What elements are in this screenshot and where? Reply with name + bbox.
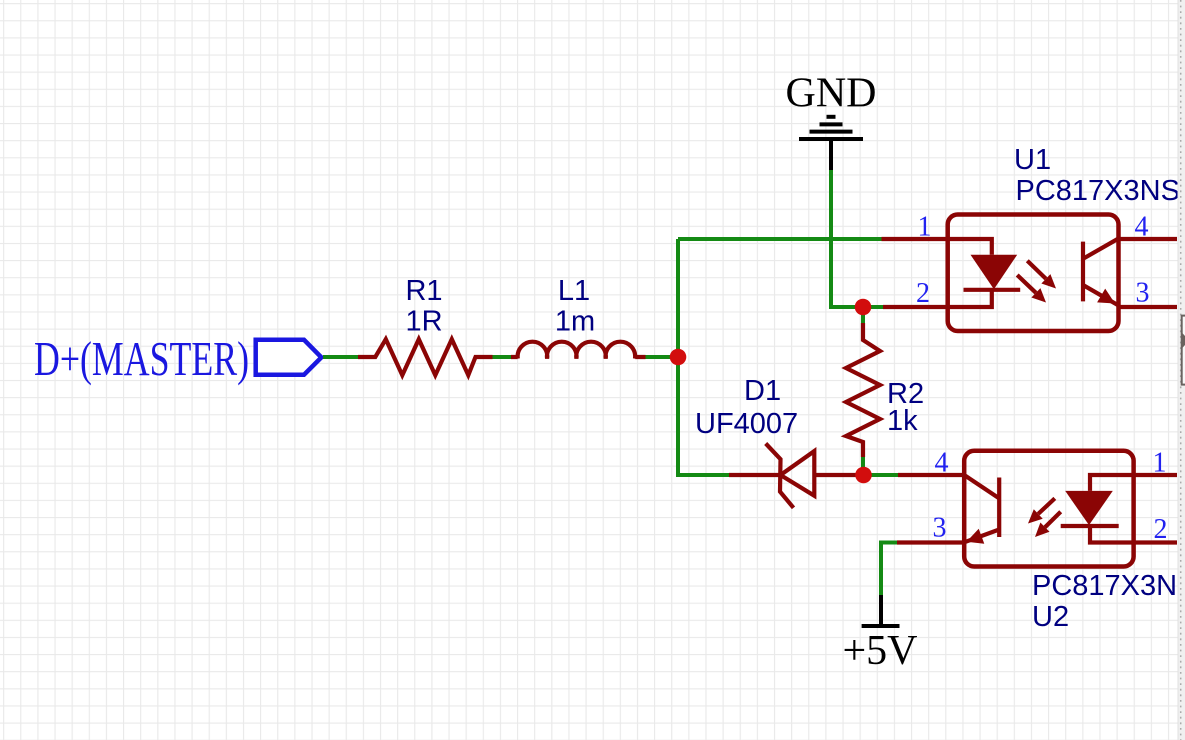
svg-text:D1: D1 [744, 375, 781, 407]
wire R1 to L1 [493, 355, 513, 359]
U2 pin 1 stub [1134, 473, 1177, 477]
vertical wire main node [678, 239, 680, 475]
wire to U1 pin 1 [678, 237, 882, 241]
wire L1 to junction [646, 355, 679, 359]
svg-text:3: 3 [933, 513, 947, 544]
U1 light arrows [1017, 261, 1056, 303]
svg-text:U1: U1 [1014, 144, 1051, 176]
diode D1 [729, 444, 864, 508]
wire +5V to U2 pin 3 [881, 543, 897, 596]
svg-text:GND: GND [786, 71, 877, 117]
U2 pin 3 stub [897, 540, 964, 544]
svg-text:2: 2 [916, 278, 930, 309]
U1 pin 2 stub [883, 305, 948, 309]
U2 light arrows [1028, 498, 1061, 537]
U2 pin 2 stub [1134, 540, 1177, 544]
svg-text:2: 2 [1154, 514, 1168, 545]
inductor L1 [511, 342, 646, 359]
wire corner to D1 [678, 473, 729, 477]
svg-text:UF4007: UF4007 [695, 408, 798, 440]
resistor R1 [358, 339, 493, 375]
U1 pin 4 stub [1119, 237, 1178, 241]
wire flag to R1 [323, 355, 359, 359]
resistor R2 [846, 323, 880, 457]
svg-text:1m: 1m [555, 306, 595, 338]
svg-text:1k: 1k [887, 405, 918, 437]
svg-text:4: 4 [935, 448, 949, 479]
wire GND down [831, 170, 863, 307]
wire junction to U1 pin 2 [863, 305, 883, 309]
svg-text:R1: R1 [405, 275, 442, 307]
U1 pin 3 stub [1119, 305, 1178, 309]
U1 pin 1 stub [882, 237, 948, 241]
svg-text:3: 3 [1136, 278, 1150, 309]
svg-text:1: 1 [918, 211, 932, 242]
U1 LED [948, 239, 1021, 307]
op U1 body [948, 215, 1119, 332]
wire R2 bottom to junction [861, 457, 865, 475]
svg-text:4: 4 [1135, 212, 1149, 243]
svg-text:+5V: +5V [843, 628, 918, 674]
U2 pin 4 stub [898, 473, 964, 477]
ground symbol [799, 117, 863, 170]
junction main node [670, 349, 687, 366]
right panel strip [1178, 0, 1185, 740]
svg-text:L1: L1 [558, 275, 590, 307]
wire junction to U2 pin 4 [864, 473, 899, 477]
wire junction down to R2 [861, 307, 865, 324]
svg-text:U2: U2 [1032, 601, 1069, 633]
svg-text:1R: 1R [405, 306, 442, 338]
panel handle [1182, 316, 1185, 385]
U2 LED [1061, 475, 1134, 543]
op U2 body [964, 451, 1133, 567]
svg-text:1: 1 [1153, 448, 1167, 479]
U1 transistor [1083, 239, 1119, 306]
junction node D1 anode [855, 467, 872, 484]
netflag port symbol [256, 340, 322, 375]
svg-text:D+(MASTER): D+(MASTER) [34, 331, 249, 386]
+5V power symbol [862, 595, 900, 626]
U2 transistor [964, 475, 999, 544]
svg-text:PC817X3NSZ: PC817X3NSZ [1016, 175, 1185, 207]
svg-text:PC817X3NSZ: PC817X3NSZ [1032, 570, 1185, 602]
junction node R2 top [855, 299, 872, 316]
